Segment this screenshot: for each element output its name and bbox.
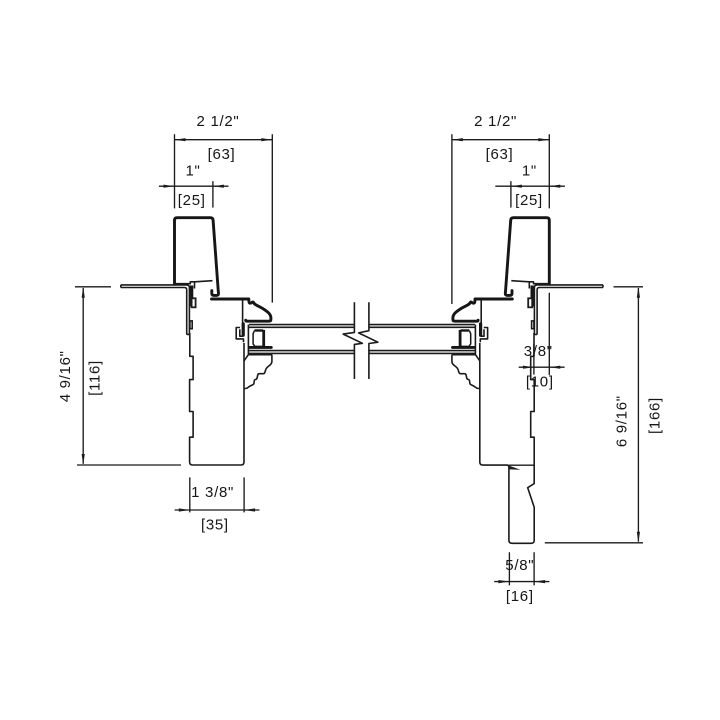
panel top skin — [249, 325, 475, 328]
right pocket bottom member — [453, 346, 475, 349]
left subsill tab — [192, 298, 196, 307]
right lower bracket — [452, 355, 480, 389]
dim 2 1/2 right line — [452, 139, 549, 141]
svg-text:[16]: [16] — [506, 588, 534, 605]
right frame jamb and leg outline — [480, 333, 534, 543]
dim 6 9/16 extension lines — [545, 287, 643, 543]
dim 1 right line — [495, 185, 565, 187]
right glazing stop ogee — [453, 299, 478, 321]
left subsill step — [194, 282, 196, 289]
dim 5/8 arrows — [498, 580, 545, 583]
left frame top member — [212, 298, 249, 301]
dim 1 left line — [159, 185, 229, 187]
svg-text:[25]: [25] — [515, 192, 543, 209]
dim 3/8 line — [519, 366, 565, 368]
break line left — [343, 302, 362, 379]
right frame top member — [475, 298, 512, 301]
svg-text:4 9/16": 4 9/16" — [57, 350, 74, 402]
panel bottom skin — [249, 351, 475, 354]
dim 1 right arrows — [511, 185, 560, 188]
right panel face line — [474, 325, 476, 355]
dim 6 9/16 arrows — [637, 287, 640, 543]
dim 1 right extension line — [510, 181, 512, 207]
left gasket leg — [242, 324, 245, 335]
dim 2 1/2 left arrows — [175, 138, 273, 141]
dim 1 3/8 extension lines — [190, 477, 244, 512]
dim 4 9/16 line — [82, 288, 84, 464]
svg-text:[63]: [63] — [208, 146, 236, 163]
left frame jamb outline — [190, 333, 244, 465]
right subsill top line — [511, 281, 548, 284]
svg-text:[63]: [63] — [486, 146, 514, 163]
dim 3/8 arrows — [523, 366, 560, 369]
left glazing stop ogee — [246, 299, 271, 321]
dim 2 1/2 left line — [175, 139, 273, 141]
left lower bracket — [244, 355, 272, 389]
left lower tab — [190, 321, 192, 329]
svg-text:1": 1" — [522, 163, 537, 180]
left setting gasket — [255, 329, 264, 331]
dim 3/8 extension lines — [534, 293, 549, 375]
right inner web line — [480, 300, 482, 327]
break line right — [359, 302, 378, 379]
svg-text:3/8": 3/8" — [524, 343, 553, 360]
svg-text:[10]: [10] — [526, 374, 554, 391]
right glazing clip — [480, 328, 487, 343]
dim 2 1/2 right arrows — [452, 138, 549, 141]
dim 4 9/16 arrows — [82, 287, 85, 465]
right lower tab — [532, 321, 534, 329]
svg-text:2 1/2": 2 1/2" — [197, 113, 240, 130]
dim 5/8 line — [494, 581, 549, 583]
dim 5/8 extension lines — [509, 552, 534, 585]
svg-text:[116]: [116] — [87, 360, 104, 396]
dim 1 left arrows — [164, 185, 224, 188]
svg-text:5/8": 5/8" — [505, 557, 534, 574]
right flashing — [534, 285, 603, 335]
svg-text:[35]: [35] — [201, 516, 229, 533]
dim 4 9/16 extension lines — [75, 287, 181, 465]
svg-text:2 1/2": 2 1/2" — [474, 113, 517, 130]
dim 1 3/8 line — [175, 509, 260, 511]
dim 6 9/16 line — [637, 288, 639, 542]
svg-text:1 3/8": 1 3/8" — [191, 484, 234, 501]
left snap cover — [175, 218, 219, 296]
left pocket bottom member — [250, 346, 272, 349]
right subsill tab — [528, 298, 532, 307]
right subsill upstand — [531, 286, 534, 307]
svg-text:1": 1" — [185, 163, 200, 180]
dim 2 1/2 left extension lines — [175, 134, 273, 302]
right subsill step — [528, 282, 530, 289]
right gasket leg — [479, 324, 482, 335]
left inner web line — [242, 300, 244, 327]
right leg wedge — [509, 466, 520, 470]
dim 1 3/8 arrows — [179, 508, 255, 511]
right snap cover — [505, 218, 549, 296]
left flashing — [121, 285, 190, 335]
right setting gasket — [461, 329, 470, 331]
left subsill top line — [175, 281, 212, 284]
svg-text:[25]: [25] — [178, 192, 206, 209]
dim 2 1/2 right extension lines — [452, 134, 549, 304]
left panel face line — [247, 325, 249, 355]
left subsill upstand — [190, 286, 193, 307]
left glazing clip — [236, 328, 243, 343]
dim 1 left extension line — [212, 181, 214, 207]
svg-text:6 9/16": 6 9/16" — [614, 395, 631, 447]
svg-text:[166]: [166] — [647, 397, 664, 434]
